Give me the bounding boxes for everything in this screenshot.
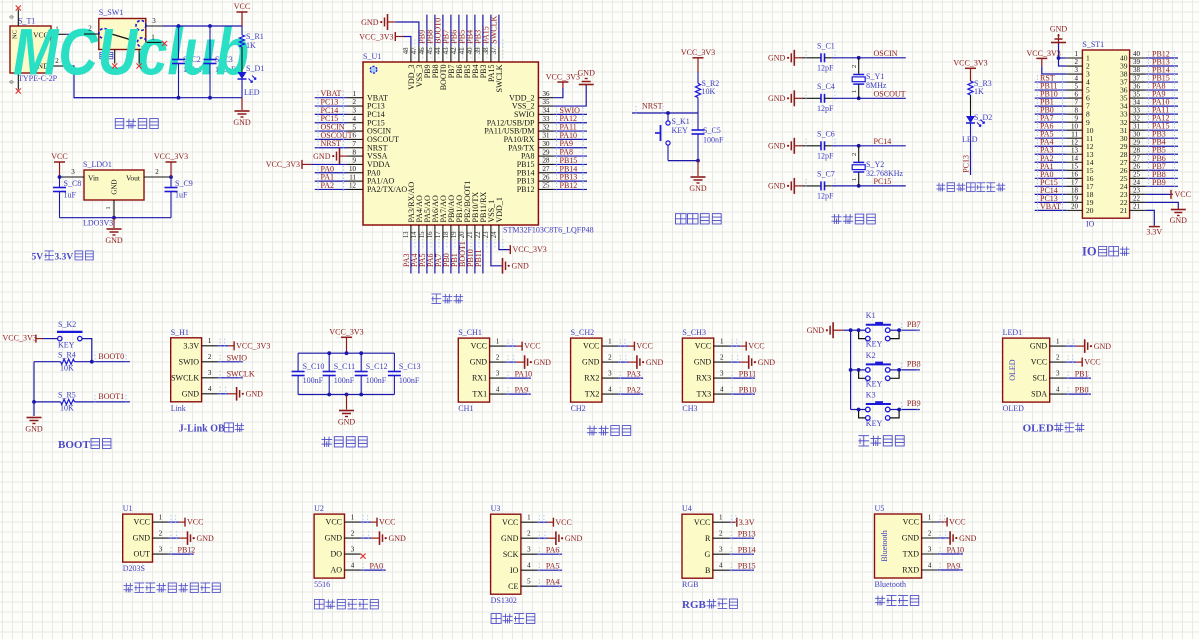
svg-text:2: 2 xyxy=(159,530,163,538)
wire and net label SWCLK at S_H1 pin 3 xyxy=(218,369,255,381)
svg-text:S_C10: S_C10 xyxy=(303,362,325,371)
ground (crystal row 1) xyxy=(768,50,803,66)
svg-text:3: 3 xyxy=(1056,370,1060,378)
pin 3 (RX1) of S_CH1 xyxy=(472,370,506,383)
wire and net label PB3 at ST1 pin 30 xyxy=(1146,130,1178,142)
svg-text:LED1: LED1 xyxy=(1003,328,1023,337)
pin 25 (PB12) of U1 xyxy=(517,182,554,194)
svg-text:PA2/TX/AO: PA2/TX/AO xyxy=(367,185,407,194)
power flag VCC_3V3 (run LED) xyxy=(953,58,987,81)
svg-text:18: 18 xyxy=(443,231,450,238)
svg-text:23: 23 xyxy=(1133,187,1141,195)
svg-text:10: 10 xyxy=(1071,122,1079,130)
svg-text:1: 1 xyxy=(159,514,163,522)
svg-text:PA3: PA3 xyxy=(627,370,641,379)
pin 2 (VCC) of LED1 xyxy=(1031,354,1066,367)
svg-text:GND: GND xyxy=(534,358,552,367)
wire and net label PB8 at ST1 pin 25 xyxy=(1146,170,1178,182)
svg-text:2: 2 xyxy=(351,530,355,538)
power flag VCC at ST1 pin 23 xyxy=(1146,190,1191,199)
svg-text:5V: 5V xyxy=(32,253,44,263)
svg-text:CE: CE xyxy=(508,582,518,591)
svg-text:VBAT: VBAT xyxy=(1040,202,1061,211)
svg-text:GND: GND xyxy=(1050,25,1068,34)
svg-text:VCC: VCC xyxy=(51,152,67,161)
svg-text:S_H1: S_H1 xyxy=(171,328,189,337)
svg-text:32: 32 xyxy=(543,123,551,131)
pin 21 (PB10/TX) of U1 bottom xyxy=(467,192,480,249)
svg-text:NRST: NRST xyxy=(642,102,663,111)
pin 42 (PB6) of U1 top xyxy=(451,40,464,79)
svg-text:19: 19 xyxy=(451,231,458,238)
svg-text:PA4: PA4 xyxy=(546,578,560,587)
svg-text:S_Y1: S_Y1 xyxy=(866,72,884,81)
wire and net label PB0 at LED1 pin 4 xyxy=(1066,386,1091,398)
power flag VCC at U5 pin 1 xyxy=(938,515,966,527)
svg-text:1: 1 xyxy=(851,90,858,93)
power flag VCC_3V3 (BOOT) xyxy=(3,334,43,343)
svg-text:GND: GND xyxy=(768,94,786,103)
pin 40 of ST1 right xyxy=(1120,50,1146,62)
pin 4 (B) of U4 xyxy=(705,562,729,575)
svg-text:CH3: CH3 xyxy=(682,404,697,413)
wire and net label PA10 at U5 pin 3 xyxy=(938,546,964,558)
pin 10 (PA0) of U1 xyxy=(348,165,381,177)
svg-text:IO: IO xyxy=(1086,220,1095,229)
svg-text:2: 2 xyxy=(496,354,500,362)
pin 4 (SDA) of LED1 xyxy=(1031,386,1066,399)
svg-text:VCC: VCC xyxy=(695,342,711,351)
caption 蓝牙模块 xyxy=(875,596,919,606)
power flag VCC at S_CH1 pin 1 xyxy=(506,339,541,351)
ground (crystal row 4) xyxy=(768,178,803,194)
svg-text:2: 2 xyxy=(719,530,723,538)
svg-text:PB12: PB12 xyxy=(178,546,196,555)
svg-text:OLED: OLED xyxy=(1008,359,1017,381)
svg-text:VCC: VCC xyxy=(748,342,764,351)
svg-text:GND: GND xyxy=(361,18,379,27)
caption 串口电路 xyxy=(587,426,631,436)
svg-text:18: 18 xyxy=(1071,187,1079,195)
wire and net label PA5 at U3 pin 4 xyxy=(537,562,562,574)
svg-text:VCC_3V3: VCC_3V3 xyxy=(681,48,715,57)
svg-text:1K: 1K xyxy=(974,87,984,96)
pin 2 (R) of U4 xyxy=(705,530,729,543)
pin 5 (CE) of U3 xyxy=(508,578,537,591)
svg-text:VCC: VCC xyxy=(636,342,652,351)
power flag VCC_3V3 (filter) xyxy=(329,327,363,353)
pin 19 of ST1 left xyxy=(1066,195,1093,207)
wire and net label PA11 at ST1 pin 33 xyxy=(1146,106,1178,118)
svg-text:RX1: RX1 xyxy=(472,374,487,383)
svg-text:J-Link OB: J-Link OB xyxy=(179,424,225,435)
svg-text:10K: 10K xyxy=(60,404,74,413)
capacitor S_C2 xyxy=(172,26,185,98)
ground at S_CH3 pin 2 xyxy=(730,355,775,369)
pin 4 (PC15) of U1 xyxy=(348,115,385,127)
svg-text:10K: 10K xyxy=(702,87,716,96)
pin 2 (SWIO) of S_H1 xyxy=(179,353,218,366)
svg-text:S_C1: S_C1 xyxy=(817,41,835,50)
svg-text:GND: GND xyxy=(646,358,664,367)
pin 0 bottom of S_T1 (no connect) xyxy=(9,73,21,94)
wire and net label PB9 at U1 pin 46 xyxy=(418,15,427,46)
resistor S_R1 xyxy=(239,26,263,50)
svg-text:S_K1: S_K1 xyxy=(672,117,690,126)
svg-text:1: 1 xyxy=(351,514,355,522)
svg-text:S_K2: S_K2 xyxy=(58,320,76,329)
svg-text:VCC: VCC xyxy=(1031,358,1047,367)
pin 2 (GND) of U3 xyxy=(501,530,537,543)
svg-text:AO: AO xyxy=(330,566,342,575)
svg-text:3: 3 xyxy=(208,369,212,377)
pin 2 (GND) of S_CH2 xyxy=(582,354,618,367)
power flag VCC_3V3 at S_H1 pin 1 xyxy=(218,339,271,351)
wire K2 to BOOT0 node xyxy=(82,339,94,364)
svg-text:VCC_3V3: VCC_3V3 xyxy=(546,72,580,81)
ground at U1 pin 23 bottom xyxy=(491,241,529,274)
wire and net label SWIO at S_H1 pin 2 xyxy=(218,353,247,365)
svg-text:S_ST1: S_ST1 xyxy=(1082,40,1104,49)
caption 光照检测模块 xyxy=(314,599,378,608)
svg-text:3: 3 xyxy=(71,168,75,176)
svg-text:PB9: PB9 xyxy=(1152,178,1166,187)
svg-text:12: 12 xyxy=(349,182,357,190)
svg-text:VCC: VCC xyxy=(326,518,342,527)
wire and net label PA15 at U1 pin 38 xyxy=(482,15,491,46)
wire and net label PB0 at ST1 pin 8 xyxy=(1035,106,1067,118)
caption J-Link OB接口 xyxy=(179,423,244,435)
svg-text:40: 40 xyxy=(467,47,474,54)
svg-text:4: 4 xyxy=(1075,74,1079,82)
svg-text:12pF: 12pF xyxy=(817,191,834,200)
svg-text:PB12: PB12 xyxy=(560,181,578,190)
caption 晶振电路 xyxy=(831,214,875,224)
pin 2 (GND) of U5 xyxy=(902,529,938,542)
pin 39 of ST1 right xyxy=(1120,58,1146,70)
pin 1 VCC of S_T1 xyxy=(51,25,66,34)
pin 18 of ST1 left xyxy=(1066,187,1093,199)
svg-text:35: 35 xyxy=(543,98,551,106)
svg-text:PA6: PA6 xyxy=(546,546,560,555)
svg-text:PA5: PA5 xyxy=(546,562,560,571)
ground at U2 pin 2 xyxy=(361,531,406,545)
pin 26 of ST1 right xyxy=(1120,162,1146,174)
pin 1 (VCC) of U3 xyxy=(502,514,537,527)
svg-text:31: 31 xyxy=(1133,122,1141,130)
svg-text:SWCLK: SWCLK xyxy=(227,369,255,378)
pin 20 (PB2/BOOT1) of U1 bottom xyxy=(459,181,472,249)
svg-text:3: 3 xyxy=(159,546,163,554)
svg-text:3: 3 xyxy=(719,546,723,554)
pin 14 (PA4/AO) of U1 bottom xyxy=(411,195,424,249)
svg-text:IO: IO xyxy=(510,566,519,575)
module S_H1 (Link) body xyxy=(171,328,202,413)
svg-text:5: 5 xyxy=(527,578,531,586)
svg-text:34: 34 xyxy=(543,107,551,115)
svg-text:SWCLK: SWCLK xyxy=(171,373,199,382)
wire and net label PA9 at S_CH1 pin 4 xyxy=(506,386,531,398)
pin 2 (GND) of U1 xyxy=(133,530,169,543)
svg-text:TX1: TX1 xyxy=(472,390,487,399)
svg-text:100nF: 100nF xyxy=(399,376,420,385)
svg-text:PA9: PA9 xyxy=(947,562,961,571)
svg-text:40: 40 xyxy=(1133,50,1141,58)
svg-text:26: 26 xyxy=(543,173,551,181)
ground (reset) xyxy=(689,161,707,193)
svg-text:2: 2 xyxy=(155,168,159,176)
pin 2 Vout of LDO1 xyxy=(144,168,173,179)
svg-text:S_D2: S_D2 xyxy=(974,113,992,122)
pin 22 of ST1 right xyxy=(1120,195,1146,207)
pin 12 (PA2/TX/AO) of U1 xyxy=(348,182,408,194)
svg-text:TX2: TX2 xyxy=(585,390,600,399)
wire and net label PB15 at U1 pin 28 xyxy=(554,156,587,168)
LED S_D1 xyxy=(238,47,265,98)
power flag VCC at LED1 pin 2 xyxy=(1066,355,1101,367)
svg-text:9: 9 xyxy=(1075,114,1079,122)
wire and net label PB12 at U1 pin 25 xyxy=(554,181,587,193)
watermark MCUclub xyxy=(13,15,249,89)
switch S_SW1 xyxy=(99,8,146,50)
wire and net label PA8 at U1 pin 29 xyxy=(554,148,587,160)
pin 13 of ST1 left xyxy=(1066,146,1093,158)
svg-text:U2: U2 xyxy=(314,504,324,513)
pin 1 of SW1 (no connect) xyxy=(147,34,168,47)
svg-text:B: B xyxy=(705,566,710,575)
wire and net label PB7 at key K1 xyxy=(899,320,921,333)
pin 4 (TX2) of S_CH2 xyxy=(585,386,618,399)
svg-text:VCC_3V3: VCC_3V3 xyxy=(266,160,300,169)
svg-text:32: 32 xyxy=(1133,114,1141,122)
svg-text:1: 1 xyxy=(928,513,932,521)
pin 27 (PB14) of U1 xyxy=(517,165,554,177)
wire and net label PA6 at ST1 pin 10 xyxy=(1035,122,1067,134)
svg-text:U4: U4 xyxy=(682,504,692,513)
power flag VCC at S_CH3 pin 1 xyxy=(730,339,765,351)
pin 3 Vin of LDO1 xyxy=(58,168,84,179)
power flag VCC at U2 pin 1 xyxy=(361,515,396,527)
svg-text:BOOT: BOOT xyxy=(58,439,90,451)
svg-text:GND: GND xyxy=(959,534,977,543)
push button S_K1 KEY xyxy=(655,113,690,161)
svg-text:4: 4 xyxy=(608,386,612,394)
wire and net label PA3 at U1 pin 13 xyxy=(402,241,411,273)
pin 2 GND of S_T1 xyxy=(51,57,66,66)
pin 3 (SCK) of U3 xyxy=(503,546,537,559)
pin 4 (AO) of U2 xyxy=(330,562,360,575)
svg-text:PB8: PB8 xyxy=(907,360,921,369)
power flag VCC at U3 pin 1 xyxy=(537,515,572,527)
wire and net label PA6 at U1 pin 16 xyxy=(426,241,435,273)
ground at U1 pin 8 xyxy=(313,148,347,164)
push button K2 KEY xyxy=(851,351,901,389)
svg-text:S_C11: S_C11 xyxy=(334,362,356,371)
svg-text:25: 25 xyxy=(543,182,551,190)
power flag VCC_3V3 at ST1 pin 3 xyxy=(1027,49,1067,74)
svg-text:R: R xyxy=(705,534,711,543)
svg-text:1uF: 1uF xyxy=(64,191,77,200)
pin 1 (VBAT) of U1 xyxy=(348,90,389,102)
wire and net label OSCOUT (crystal) xyxy=(832,89,906,100)
wire T1 pin2 down to GND rail xyxy=(66,66,178,98)
svg-text:5516: 5516 xyxy=(314,580,330,589)
wire and net label PB4 at U1 pin 40 xyxy=(466,15,475,46)
svg-text:VCC: VCC xyxy=(555,518,571,527)
caption 程序运行指示灯 xyxy=(936,183,1005,192)
svg-text:U3: U3 xyxy=(491,504,501,513)
svg-text:1: 1 xyxy=(1075,50,1079,58)
svg-text:VCC: VCC xyxy=(471,342,487,351)
svg-text:1: 1 xyxy=(720,338,724,346)
power flag VCC at U1 pin 1 xyxy=(169,515,204,527)
svg-text:OLED: OLED xyxy=(1023,423,1054,435)
caption OLED显示屏 xyxy=(1023,423,1085,435)
pin 33 (PA12/USB/DP) of U1 xyxy=(487,115,554,127)
wire and net label PB14 at U1 pin 27 xyxy=(554,164,587,176)
svg-text:100nF: 100nF xyxy=(334,376,355,385)
pin 4/5 of SW1 bottom (no connect) xyxy=(112,50,142,69)
pin 40 (PB4) of U1 top xyxy=(467,40,480,79)
svg-text:2: 2 xyxy=(88,25,92,33)
svg-text:PA10: PA10 xyxy=(515,370,533,379)
caption 时钟模块 xyxy=(491,614,535,624)
svg-text:U5: U5 xyxy=(875,504,885,513)
svg-text:Bluetooth: Bluetooth xyxy=(875,580,907,589)
ground at U1 pin 47 top xyxy=(361,14,419,46)
svg-text:2: 2 xyxy=(208,353,212,361)
pin 15 of ST1 left xyxy=(1066,162,1093,174)
module U5 (Bluetooth) body xyxy=(875,504,922,589)
svg-text:VCC: VCC xyxy=(134,518,150,527)
pin 17 (PA7/AO) of U1 bottom xyxy=(435,195,448,249)
wire and net label PA0 at ST1 pin 16 xyxy=(1035,170,1067,182)
svg-text:19: 19 xyxy=(1071,195,1079,203)
pin 1 of ST1 left xyxy=(1066,50,1090,62)
caption 主芯片 xyxy=(431,294,463,303)
module U1 (D203S) body xyxy=(123,504,153,573)
pin 4 of ST1 left xyxy=(1066,74,1090,86)
caption 按键电路 xyxy=(858,436,904,446)
pin 3 (DO) of U2 xyxy=(330,546,360,559)
svg-text:U1: U1 xyxy=(123,504,133,513)
svg-text:S_C7: S_C7 xyxy=(817,169,835,178)
ground (BOOT) xyxy=(25,418,43,434)
wire and net label PA10 at U1 pin 31 xyxy=(554,131,587,143)
wire and net label PA2 at S_CH2 pin 4 xyxy=(618,386,643,398)
svg-text:PB1: PB1 xyxy=(1075,370,1089,379)
svg-text:PB11: PB11 xyxy=(739,370,757,379)
pin 32 (PA11/USB/DM) of U1 xyxy=(484,123,553,135)
wire and net label PB13 at U1 pin 26 xyxy=(554,173,587,185)
svg-text:2: 2 xyxy=(720,354,724,362)
pin 16 (PA6/AO) of U1 bottom xyxy=(427,195,440,249)
svg-text:Vout: Vout xyxy=(126,174,141,183)
svg-text:VCC: VCC xyxy=(234,2,250,11)
ground at LED1 pin 1 xyxy=(1066,339,1111,353)
pin 24 of ST1 right xyxy=(1120,179,1146,191)
pin 3 of SW1 (output) xyxy=(146,17,163,26)
pin 9 of ST1 left xyxy=(1066,114,1090,126)
wire and net label PA4 at U1 pin 14 xyxy=(410,241,419,273)
pin 3 (PC14) of U1 xyxy=(348,107,385,119)
capacitor S_C4 xyxy=(803,82,836,113)
svg-text:OLED: OLED xyxy=(1003,404,1025,413)
wire and net label PB11 at ST1 pin 5 xyxy=(1035,82,1067,94)
svg-text:SDA: SDA xyxy=(1031,390,1047,399)
svg-text:PA0: PA0 xyxy=(370,562,384,571)
pin 1 (VCC) of S_CH2 xyxy=(583,338,618,351)
no-connect at U2 pin 3 xyxy=(360,554,365,559)
svg-text:1: 1 xyxy=(851,178,858,181)
svg-text:VCC_3V3: VCC_3V3 xyxy=(3,334,37,343)
push button S_K2 KEY xyxy=(43,320,83,350)
wire and net label PA10 at S_CH1 pin 3 xyxy=(506,370,532,382)
wire and net label PB11 at S_CH3 pin 3 xyxy=(730,370,756,382)
svg-text:OSCIN: OSCIN xyxy=(874,49,898,58)
svg-text:7: 7 xyxy=(353,140,357,148)
svg-text:GND: GND xyxy=(768,182,786,191)
svg-text:S_C4: S_C4 xyxy=(817,82,835,91)
capacitor S_C12 xyxy=(355,353,388,394)
svg-text:KEY: KEY xyxy=(672,126,689,135)
svg-text:GND: GND xyxy=(1094,342,1112,351)
svg-text:S_U1: S_U1 xyxy=(363,52,381,61)
svg-text:TXD: TXD xyxy=(903,550,920,559)
svg-text:VCC: VCC xyxy=(1175,190,1191,199)
wire and net label PA11 at U1 pin 32 xyxy=(554,123,587,135)
ground at U5 pin 2 xyxy=(938,531,977,545)
svg-text:KEY: KEY xyxy=(58,341,75,350)
pin 47 (VSS_3) of U1 top xyxy=(411,40,424,88)
svg-text:PA9: PA9 xyxy=(515,386,529,395)
pin 25 of ST1 right xyxy=(1120,171,1146,183)
svg-text:S_R4: S_R4 xyxy=(58,351,76,360)
wire and net label PA0 at U2 pin 4 xyxy=(361,562,386,574)
capacitor S_C11 xyxy=(323,353,356,394)
svg-text:46: 46 xyxy=(419,47,426,54)
module U2 (5516) body xyxy=(314,504,344,589)
power flag VCC_3V3 (LDO output) xyxy=(154,152,188,177)
push button K3 KEY xyxy=(851,391,901,429)
svg-text:VCC_3V3: VCC_3V3 xyxy=(236,341,270,350)
wire and net label PB1 at U1 pin 19 xyxy=(450,241,459,273)
pin 8 of ST1 left xyxy=(1066,106,1090,118)
ground at ST1 pins 1-2 top xyxy=(1050,25,1068,67)
svg-text:VCC: VCC xyxy=(949,518,965,527)
pin 3 (TXD) of U5 xyxy=(903,545,938,558)
svg-text:K1: K1 xyxy=(866,311,876,320)
svg-text:5: 5 xyxy=(1075,82,1079,90)
svg-text:SWIO: SWIO xyxy=(227,353,248,362)
wire and net label VBAT at U1 pin 1 xyxy=(315,89,348,101)
pin 2 (GND) of S_CH3 xyxy=(694,354,730,367)
svg-text:4: 4 xyxy=(928,561,932,569)
svg-text:28: 28 xyxy=(543,157,551,165)
wire and net label PB7 at U1 pin 43 xyxy=(442,15,451,46)
svg-text:VCC_3V3: VCC_3V3 xyxy=(1027,49,1061,58)
svg-text:PB12: PB12 xyxy=(517,185,535,194)
svg-text:GND: GND xyxy=(807,326,825,335)
svg-text:22: 22 xyxy=(475,231,482,238)
wire and net label PB13 at ST1 pin 39 xyxy=(1146,58,1178,70)
svg-text:8: 8 xyxy=(353,148,357,156)
svg-text:15: 15 xyxy=(419,231,426,238)
pin 11 (PA1/AO) of U1 xyxy=(348,173,395,185)
pin 28 (PB15) of U1 xyxy=(517,157,554,169)
power flag VCC_3V3 at U1 pin 24 bottom xyxy=(499,241,547,254)
pin 1 (VCC) of S_CH1 xyxy=(471,338,506,351)
